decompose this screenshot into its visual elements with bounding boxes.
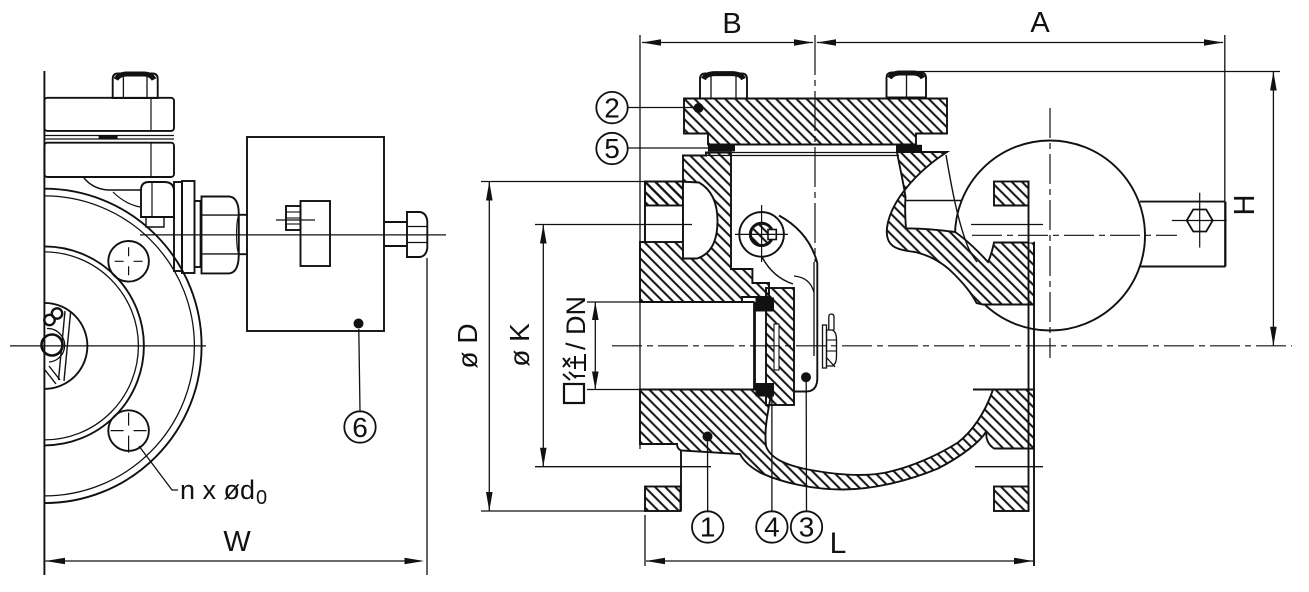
bracket plate 1 (edge view): [174, 182, 182, 271]
bolt on bonnet (side view hex nut): [113, 74, 158, 99]
svg-text:L: L: [830, 527, 847, 560]
balloon 4: [756, 511, 787, 542]
weight block inside box: [301, 201, 331, 266]
bracket arm right of ball: [1140, 201, 1226, 203]
body 1: left flange bottom rim: [645, 487, 681, 512]
hex bolt on bracket: [1187, 210, 1213, 232]
bolt on bonnet left (section): [700, 74, 747, 99]
seal 4 top (black): [756, 298, 775, 312]
body 1: right wall from bonnet down around chamber to outlet: [887, 152, 1034, 305]
svg-text:W: W: [223, 526, 251, 558]
bolt hole bottom: [108, 410, 149, 451]
screw hex inside box: [286, 206, 301, 230]
dim L: [645, 515, 1033, 566]
seal 4 bottom (black): [756, 383, 775, 397]
svg-text:0: 0: [256, 487, 267, 509]
spoke lower-left: [49, 366, 60, 380]
dim oD: [452, 182, 645, 512]
svg-text:6: 6: [352, 412, 368, 443]
wire: flange face / vertical centerline of side view: [43, 71, 45, 575]
label n x d0: [180, 475, 267, 509]
washer: [195, 201, 201, 267]
balloon 2: [596, 92, 627, 123]
right flange bolt hole centre tick: [971, 224, 1043, 226]
body mouth rim lines under bonnet: [706, 152, 899, 154]
stem lines nut to box: [239, 214, 247, 216]
wire: horizontal centerline of flange: [10, 345, 206, 347]
pin key square: [768, 230, 776, 240]
wire: right flange main face: [1028, 182, 1030, 512]
svg-text:2: 2: [604, 92, 620, 123]
W dimension: [46, 526, 425, 564]
seat ring bold edge: [753, 302, 756, 390]
swing arm bar lines toward ball: [905, 200, 962, 202]
dim H: [906, 72, 1280, 346]
bracket plate 2 (edge view): [182, 181, 195, 273]
balloon 1: [692, 511, 723, 542]
body 1: left flange rim (above bolt hole): [645, 182, 683, 206]
dim DN: [561, 296, 642, 403]
svg-text:4: 4: [764, 512, 780, 543]
disc nut: [827, 330, 837, 366]
leader n x d0: [139, 446, 178, 490]
svg-text:ø K: ø K: [504, 323, 535, 367]
right flange bolt hole white band: [994, 206, 1034, 243]
svg-text:A: A: [1030, 7, 1050, 39]
body 1: left flange lower hub + bottom curved band + right lower hub: [640, 390, 1034, 490]
dim A: [817, 7, 1225, 267]
flange outer circle arc r157: [44, 189, 201, 503]
boss outer arc: [47, 328, 65, 362]
raised face circle r99.5: [44, 246, 143, 445]
split pin omega (cotter pin end): [44, 315, 54, 325]
wire: ball horizontal centerline: [972, 234, 1177, 236]
wire: bore walls: [640, 301, 755, 303]
svg-text:n x ød: n x ød: [180, 475, 255, 505]
wire: hinge axis vertical centerline: [814, 35, 816, 262]
svg-text:3: 3: [799, 512, 815, 543]
balloon 3: [791, 511, 822, 542]
dim B: [640, 8, 813, 449]
balloon 6: [359, 329, 360, 411]
hex nut right of box: [407, 212, 427, 257]
wire: hinge pin axis centerline: [140, 234, 446, 236]
bolt on bonnet right (section): [887, 73, 927, 98]
bonnet plate upper (side view): [44, 98, 174, 131]
gasket lines between plates: [44, 135, 174, 137]
disc holder / swing arm lower: [779, 216, 817, 392]
raised face inner circle r94: [44, 252, 138, 440]
svg-text:B: B: [722, 8, 741, 40]
svg-text:5: 5: [604, 133, 620, 164]
left flange bolt hole (white): [645, 206, 683, 243]
flange chamfer arc r150: [44, 196, 194, 496]
dim oK: [504, 225, 711, 467]
wire: main pipe axis centerline: [612, 345, 1292, 347]
stem lines box to right nut: [384, 221, 407, 223]
right flange rim (drawn over ball): [994, 182, 1029, 206]
bolt hole top (n x d0): [108, 241, 149, 282]
pin crosshair: [761, 205, 763, 262]
balloon 5: [596, 133, 627, 164]
disc 3 (hatched section): [766, 288, 794, 405]
svg-text:/ DN: / DN: [561, 296, 591, 350]
body 1: left hub and neck wall: [640, 153, 769, 303]
wire: left flange inner face lower: [680, 451, 682, 511]
body neck pocket (white D): [683, 182, 718, 259]
split pin: [829, 314, 834, 330]
disc face sliver: [774, 324, 779, 370]
gasket 5 black segment (side view): [99, 135, 118, 139]
W dimension right extension line: [426, 258, 428, 575]
disc nut washer: [823, 325, 827, 368]
hinge pin (hatched, bold circle): [750, 223, 772, 245]
svg-text:1: 1: [700, 512, 716, 543]
disc arm tilted lines: [59, 311, 66, 380]
bonnet 2 (cover): [684, 99, 947, 145]
bonnet plate lower (side view): [44, 143, 174, 177]
gasket 5 left (black): [708, 145, 735, 152]
disc circle r43: [44, 303, 87, 389]
center boss circle: [42, 335, 63, 356]
hex nut on hinge pin (side view): [202, 197, 239, 274]
wire: right raised face / L extension: [1033, 242, 1035, 566]
gasket 5 right (black): [896, 145, 922, 152]
svg-text:ø D: ø D: [452, 323, 483, 368]
chamber interior arc: [946, 155, 977, 262]
wire: ball vertical centerline: [1049, 108, 1051, 358]
counterweight ball: [955, 141, 1145, 331]
hinge boss housing top (side view): [84, 178, 141, 190]
counterweight box 6: [247, 137, 384, 331]
right flange bottom rim: [994, 487, 1029, 512]
hinge pin boss outer circle: [739, 212, 784, 257]
svg-text:H: H: [1229, 195, 1261, 216]
